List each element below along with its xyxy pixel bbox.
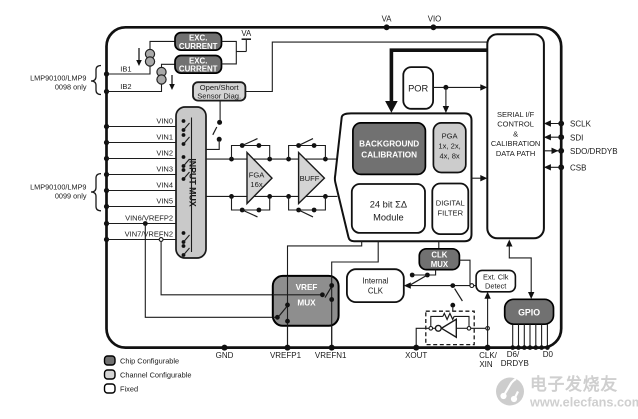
svg-text:MUX: MUX [431, 260, 449, 269]
legend chip configurable [105, 356, 116, 365]
input mux bus [191, 118, 193, 253]
junction node x288.6 top [286, 157, 291, 162]
wire VIN2 [107, 158, 177, 160]
junction node x269.7 top [267, 157, 272, 162]
svg-text:Internal: Internal [362, 276, 388, 285]
node VREFP2 tap [143, 221, 148, 226]
arrow current direction IB2 [171, 75, 173, 87]
wire FGA bottom bypass [232, 196, 270, 210]
switch CLK MUX select [412, 270, 435, 275]
svg-text:Channel Configurable: Channel Configurable [120, 371, 192, 380]
svg-text:DRDYB: DRDYB [501, 359, 529, 368]
svg-text:INPUT MUX: INPUT MUX [188, 158, 198, 207]
wire VIN4 [107, 190, 177, 192]
svg-text:BUFF: BUFF [300, 174, 320, 183]
node POR branch [443, 85, 448, 90]
wire analog top line [206, 158, 337, 160]
svg-text:CALIBRATION: CALIBRATION [361, 150, 417, 159]
wire BUFF top bypass [289, 146, 326, 160]
svg-text:VIN3: VIN3 [156, 165, 173, 174]
crystal oscillator dashed box [426, 311, 474, 344]
wire CLK MUX to ext clk line [459, 260, 470, 285]
wire osc input to CLK/XIN [456, 327, 467, 329]
svg-text:0098 only: 0098 only [55, 83, 87, 92]
block EXC CURRENT 1 [175, 33, 222, 51]
wire analog bottom line [206, 195, 337, 197]
svg-text:VA: VA [241, 29, 252, 38]
switch BUFF top bypass [296, 143, 301, 148]
pin VIO (top) [431, 24, 437, 30]
svg-text:BACKGROUND: BACKGROUND [359, 139, 419, 148]
svg-text:Detect: Detect [485, 282, 506, 291]
svg-text:VREF: VREF [296, 283, 318, 292]
wire osc feedback right [454, 316, 469, 326]
svg-text:IB2: IB2 [120, 82, 131, 91]
junction node x269.7 bottom [267, 194, 272, 199]
wire POR to ADC [445, 87, 447, 107]
pin SCLK [558, 121, 564, 127]
wire Open/Short to Serial IF [245, 42, 487, 91]
junction node x288.6 bottom [286, 194, 291, 199]
wire VIN3 [107, 174, 177, 176]
wire VIN6/VREFP2 [107, 223, 177, 225]
svg-text:VIN5: VIN5 [156, 197, 173, 206]
svg-text:CONTROL: CONTROL [497, 120, 534, 129]
node osc output [429, 327, 433, 331]
wire IB1 to current source 1 [107, 66, 151, 74]
block Internal CLK [347, 269, 404, 302]
svg-text:VIN4: VIN4 [156, 181, 173, 190]
pin IB2 [104, 89, 109, 94]
amplifier FGA 16x [247, 153, 272, 204]
wire VIN5 [107, 206, 177, 208]
pin VIN2 [104, 156, 109, 161]
wire ADC to CLK MUX [438, 241, 440, 249]
node CLK junction [486, 327, 490, 331]
pin VIN7/VREFN2 [104, 237, 109, 242]
block DIGITAL FILTER [432, 184, 468, 235]
resistor R osc [443, 313, 454, 319]
svg-text:CURRENT: CURRENT [179, 42, 218, 51]
svg-text:&: & [513, 129, 518, 138]
svg-text:24 bit ΣΔ: 24 bit ΣΔ [370, 200, 407, 210]
pin VIN4 [104, 188, 109, 193]
switch FGA top bypass [240, 143, 245, 148]
pin VA (top) [384, 24, 390, 30]
svg-text:Fixed: Fixed [120, 385, 138, 394]
pin CLK/XIN [485, 345, 491, 351]
pin VIN1 [104, 140, 109, 145]
svg-text:CURRENT: CURRENT [179, 65, 218, 74]
wire VIN7/VREFN2 [107, 239, 177, 241]
node VREFN2 tap [159, 238, 163, 242]
switch BUFF bottom bypass [296, 208, 301, 213]
GPIO pins D6-D0 [512, 324, 514, 347]
wire osc output to XOUT [433, 327, 436, 329]
block VREF MUX [273, 276, 339, 326]
wire ADC to Serial IF [472, 177, 482, 179]
wire osc feedback left [431, 316, 443, 326]
switch crystal select [450, 283, 455, 288]
current source 2 (IB2) [157, 67, 166, 76]
svg-text:XOUT: XOUT [405, 351, 427, 360]
pin VIN0 [104, 124, 109, 129]
svg-text:DIGITAL: DIGITAL [436, 198, 465, 207]
svg-text:CLK: CLK [431, 251, 447, 260]
brace 0099 pins [91, 174, 101, 211]
svg-text:SDI: SDI [570, 133, 583, 142]
wire VREFN1 to ADC [332, 241, 379, 347]
pin VIN6/VREFP2 [104, 221, 109, 226]
svg-text:PGA: PGA [442, 131, 459, 140]
svg-text:16x: 16x [250, 180, 262, 189]
pin SDO/DRDYB [558, 148, 564, 154]
svg-text:VIN6/VREFP2: VIN6/VREFP2 [125, 214, 173, 223]
amplifier BUFF [299, 153, 325, 204]
block EXC CURRENT 2 [175, 56, 222, 74]
pin VREFP1 [285, 345, 291, 351]
svg-text:FILTER: FILTER [437, 208, 463, 217]
pin SDI [558, 134, 564, 140]
svg-text:SDO/DRDYB: SDO/DRDYB [570, 147, 618, 156]
wire VREFP2 inside mux [273, 316, 278, 318]
svg-text:GND: GND [216, 351, 234, 360]
wire ext clk to Ext Clk Detect [474, 285, 476, 287]
svg-text:IB1: IB1 [120, 64, 131, 73]
node ext clk open [470, 284, 474, 288]
pin CSB [558, 164, 564, 170]
junction node x325.4 bottom [323, 194, 328, 199]
wire VREFP1 inside mux [287, 276, 289, 348]
block ADC section outline [335, 113, 472, 241]
svg-text:4x, 8x: 4x, 8x [439, 152, 459, 161]
svg-text:Sensor Diag.: Sensor Diag. [197, 92, 241, 101]
svg-text:XIN: XIN [479, 360, 493, 369]
switch FGA bottom bypass [240, 208, 245, 213]
block SERIAL IF CONTROL and CALIBRATION DATA PATH [487, 34, 544, 238]
wire EXC outputs to VA [222, 41, 237, 64]
chip boundary LMP90100 [107, 27, 562, 347]
arrow into Internal CLK [404, 282, 411, 288]
block PGA 1x 2x 4x 8x [433, 123, 465, 173]
arrow current direction IB1 [138, 48, 140, 63]
wire Serial IF to BACKGROUND CALIBRATION (thick) [391, 50, 487, 101]
svg-text:VIO: VIO [428, 15, 441, 24]
wire Serial IF to GPIO [509, 244, 531, 294]
wire FGA top bypass [232, 146, 270, 160]
svg-text:VREFN1: VREFN1 [315, 351, 347, 360]
inverter U osc [442, 319, 457, 337]
block GPIO [505, 299, 554, 324]
supply VA stub [245, 39, 247, 51]
svg-text:FGA: FGA [249, 170, 266, 179]
switch VREF MUX right [329, 283, 334, 288]
svg-text:VIN0: VIN0 [156, 117, 173, 126]
wire VIN1 [107, 142, 177, 144]
svg-text:POR: POR [408, 83, 428, 93]
junction node x325.4 top [323, 157, 328, 162]
svg-text:0099 only: 0099 only [55, 192, 87, 201]
svg-text:D0: D0 [543, 350, 554, 359]
junction node x231.5 top [229, 157, 234, 162]
svg-text:SCLK: SCLK [570, 120, 592, 129]
svg-text:CLK/: CLK/ [479, 351, 498, 360]
wire current source 2 to EXC block 2 [162, 64, 176, 67]
wire IB2 to current source 2 [107, 84, 162, 91]
svg-text:www.elecfans.com: www.elecfans.com [529, 396, 638, 410]
pin VREFN1 [329, 345, 335, 351]
pin VIN3 [104, 172, 109, 177]
svg-text:VIN7/VREFN2: VIN7/VREFN2 [125, 230, 173, 239]
block Open/Short Sensor Diag [193, 82, 245, 100]
svg-text:D6/: D6/ [507, 350, 520, 359]
svg-text:1x, 2x,: 1x, 2x, [438, 141, 460, 150]
svg-text:SERIAL I/F: SERIAL I/F [497, 110, 535, 119]
current source 1 (IB1) [145, 49, 154, 58]
legend channel configurable [105, 370, 116, 379]
brace 0098 pins [91, 66, 101, 95]
svg-text:GPIO: GPIO [518, 307, 540, 317]
junction node x231.5 bottom [229, 194, 234, 199]
switch open/short diag [219, 101, 221, 121]
block Ext Clk Detect [476, 270, 515, 291]
input mux internal switches [182, 119, 186, 123]
pin GND [222, 345, 228, 351]
node osc input [467, 327, 471, 331]
svg-text:LMP90100/LMP9: LMP90100/LMP9 [30, 74, 86, 83]
svg-text:VIN2: VIN2 [156, 149, 173, 158]
wire VREFN2 to VREF MUX [161, 241, 322, 294]
svg-text:Ext. Clk: Ext. Clk [483, 273, 509, 282]
wire VREFP2 to VREF MUX [145, 224, 277, 318]
pin IB1 [104, 71, 109, 76]
svg-text:Chip Configurable: Chip Configurable [120, 357, 179, 366]
svg-text:CSB: CSB [570, 163, 586, 172]
watermark logo [496, 378, 524, 406]
svg-text:电子发烧友: 电子发烧友 [530, 374, 618, 394]
wire POR to Serial IF [433, 86, 481, 88]
wire BUFF bottom bypass [289, 196, 326, 210]
svg-text:CALIBRATION: CALIBRATION [491, 139, 540, 148]
svg-text:VA: VA [382, 15, 393, 24]
block BACKGROUND CALIBRATION [353, 123, 426, 174]
pin XOUT [413, 345, 419, 351]
block CLK MUX [419, 249, 459, 270]
legend fixed [105, 384, 116, 393]
svg-text:LMP90100/LMP9: LMP90100/LMP9 [30, 182, 86, 191]
svg-text:Module: Module [373, 213, 404, 223]
block POR [403, 67, 433, 109]
pin VIN5 [104, 204, 109, 209]
wire current source 1 to EXC block 1 [150, 41, 175, 49]
wire clock select line [408, 285, 471, 287]
wire VIN0 [107, 126, 177, 128]
wire VREFN2 inside mux [273, 294, 323, 296]
svg-text:MUX: MUX [297, 299, 316, 308]
switch VREF MUX left [285, 303, 290, 308]
svg-text:CLK: CLK [368, 286, 384, 295]
wire VREFN1 inside mux [331, 276, 333, 348]
wire VREFP1 to ADC [288, 241, 362, 347]
wire CLK/XIN to Ext Clk Detect [487, 297, 489, 348]
block INPUT MUX [176, 107, 206, 258]
block 24 bit Sigma Delta Module [352, 184, 425, 233]
svg-text:VREFP1: VREFP1 [270, 351, 302, 360]
svg-text:VIN1: VIN1 [156, 133, 173, 142]
svg-text:DATA PATH: DATA PATH [496, 149, 535, 158]
